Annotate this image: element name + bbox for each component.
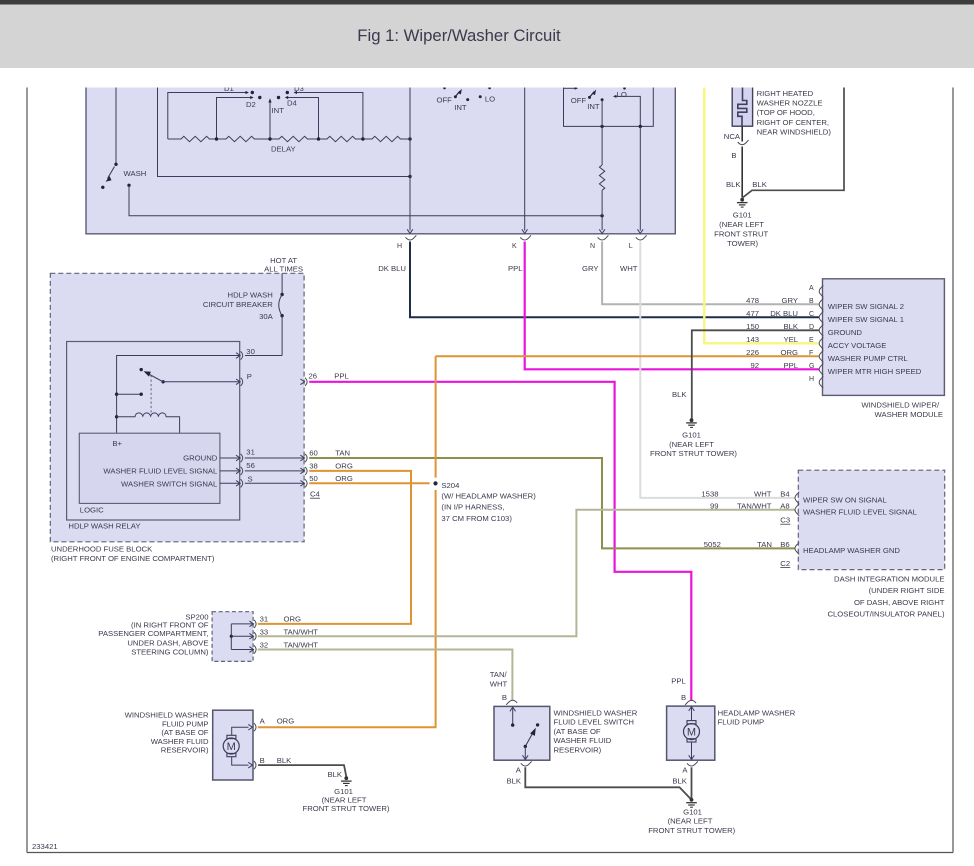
- svg-text:INT: INT: [454, 103, 467, 112]
- svg-text:OF DASH, ABOVE RIGHT: OF DASH, ABOVE RIGHT: [854, 598, 945, 607]
- svg-text:DK BLU: DK BLU: [770, 309, 798, 318]
- svg-text:UNDER DASH, ABOVE: UNDER DASH, ABOVE: [127, 639, 208, 648]
- rotary switch OFF/INT/LO (right, boxed): [564, 80, 654, 128]
- hdlp wash relay box: [67, 342, 240, 531]
- svg-text:226: 226: [746, 348, 759, 357]
- svg-text:B: B: [502, 693, 507, 702]
- svg-text:ORG: ORG: [780, 348, 798, 357]
- svg-text:DK BLU: DK BLU: [378, 264, 406, 273]
- svg-text:31: 31: [246, 447, 255, 456]
- svg-text:INT: INT: [587, 102, 600, 111]
- relay pin P wire: [163, 372, 252, 386]
- svg-text:B4: B4: [780, 489, 790, 498]
- headlamp pump pin B connector: [681, 693, 696, 705]
- svg-text:FLUID PUMP: FLUID PUMP: [162, 719, 209, 728]
- module pin D: [746, 322, 862, 337]
- svg-text:(RIGHT FRONT OF ENGINE COMPART: (RIGHT FRONT OF ENGINE COMPARTMENT): [51, 554, 215, 563]
- svg-text:A: A: [260, 716, 266, 725]
- wire 26 PPL relay P to headlamp washer pump: [309, 382, 691, 701]
- svg-text:30A: 30A: [259, 312, 274, 321]
- level switch pin A connector: [506, 761, 531, 785]
- wire BLK windshield pump to ground: [258, 765, 346, 779]
- svg-text:BLK: BLK: [752, 180, 767, 189]
- relay pin 30: [236, 347, 282, 360]
- wash signal wire to N: [127, 184, 604, 218]
- svg-text:31: 31: [260, 615, 269, 624]
- svg-text:GROUND: GROUND: [183, 453, 218, 462]
- wiper motor ground wire BLK (clipped top right): [742, 80, 844, 198]
- svg-text:143: 143: [746, 335, 759, 344]
- svg-text:(NEAR LEFT: (NEAR LEFT: [668, 817, 713, 826]
- svg-text:LO: LO: [485, 95, 495, 104]
- svg-text:RIGHT HEATED: RIGHT HEATED: [757, 89, 814, 98]
- svg-text:TAN/: TAN/: [490, 670, 508, 679]
- svg-text:WASHER NOZZLE: WASHER NOZZLE: [757, 99, 823, 108]
- svg-text:M: M: [227, 741, 236, 753]
- level switch pin B connector: [502, 693, 517, 705]
- svg-text:RESERVOIR): RESERVOIR): [554, 746, 602, 755]
- svg-text:STEERING COLUMN): STEERING COLUMN): [131, 647, 209, 656]
- headlamp pump pin A connector: [672, 761, 697, 785]
- windshield pump motor symbol: [223, 724, 252, 768]
- windshield pump pin B: [254, 756, 292, 769]
- svg-text:WINDSHIELD WIPER/: WINDSHIELD WIPER/: [861, 401, 940, 410]
- svg-text:A: A: [682, 765, 688, 774]
- svg-text:TAN/WHT: TAN/WHT: [284, 640, 319, 649]
- svg-text:FLUID PUMP: FLUID PUMP: [718, 718, 765, 727]
- fuse block connector pin 38: [300, 461, 352, 475]
- svg-text:WASHER MODULE: WASHER MODULE: [875, 410, 943, 419]
- svg-text:WIPER SW ON SIGNAL: WIPER SW ON SIGNAL: [803, 495, 887, 504]
- DIM pin B6 / C2: [704, 540, 901, 568]
- svg-text:BLK: BLK: [277, 756, 292, 765]
- module pin F: [746, 348, 908, 363]
- wire 99 TAN/WHT DIM A8 to SP200 pin 33: [258, 510, 796, 636]
- svg-text:FRONT STRUT TOWER): FRONT STRUT TOWER): [303, 804, 390, 813]
- svg-text:GRY: GRY: [582, 264, 599, 273]
- contact D3: [286, 84, 363, 139]
- wire 143 YEL accy voltage to module pin E: [704, 80, 819, 343]
- pin L exit arrow: [638, 126, 644, 233]
- svg-text:1538: 1538: [701, 489, 718, 498]
- pin K exit arrow: [522, 80, 528, 234]
- ground G101 (headlamp pump): [648, 798, 735, 835]
- svg-text:477: 477: [746, 309, 759, 318]
- svg-text:WHT: WHT: [620, 264, 638, 273]
- svg-text:(IN I/P HARNESS,: (IN I/P HARNESS,: [441, 503, 504, 512]
- fuse block connector C4 pin 26 (P): [300, 371, 349, 386]
- svg-text:L: L: [629, 243, 633, 250]
- windshield washer fluid pump M1: [125, 710, 253, 780]
- svg-text:WIPER MTR HIGH SPEED: WIPER MTR HIGH SPEED: [828, 367, 922, 376]
- svg-text:D1: D1: [224, 84, 234, 93]
- svg-text:BLK: BLK: [672, 390, 687, 399]
- svg-text:OFF: OFF: [571, 96, 587, 105]
- svg-text:A: A: [516, 765, 522, 774]
- level switch internals: [510, 706, 539, 759]
- svg-text:PASSENGER COMPARTMENT,: PASSENGER COMPARTMENT,: [98, 629, 208, 638]
- svg-text:ORG: ORG: [335, 474, 353, 483]
- wire 150 BLK module ground: [672, 330, 819, 419]
- DIM pin A8 / C3: [710, 501, 918, 524]
- wire TAN/WHT SP200 pin 32 to fluid level switch: [258, 650, 513, 701]
- wiper/washer switch assembly box: [86, 80, 675, 234]
- svg-text:26: 26: [309, 371, 318, 380]
- contact D2: [217, 96, 262, 139]
- WASH switch: [101, 80, 146, 189]
- ground G101 (windshield pump): [303, 776, 390, 813]
- svg-text:YEL: YEL: [783, 335, 798, 344]
- svg-text:HEADLAMP WASHER GND: HEADLAMP WASHER GND: [803, 546, 900, 555]
- svg-text:60: 60: [309, 449, 318, 458]
- fuse block connector pin 60: [300, 449, 350, 463]
- svg-text:WASHER FLUID: WASHER FLUID: [151, 737, 209, 746]
- svg-text:33: 33: [260, 627, 269, 636]
- svg-text:H: H: [809, 376, 814, 383]
- svg-text:WASH: WASH: [124, 169, 147, 178]
- svg-text:HDLP WASH: HDLP WASH: [228, 291, 273, 300]
- svg-text:38: 38: [309, 461, 318, 470]
- svg-text:B: B: [260, 756, 265, 765]
- svg-text:92: 92: [750, 361, 759, 370]
- windshield washer fluid level switch S1: [494, 706, 638, 760]
- svg-text:WIPER SW SIGNAL 1: WIPER SW SIGNAL 1: [828, 315, 904, 324]
- delay resistor network outer loop wire: [158, 80, 412, 178]
- svg-text:H: H: [397, 243, 402, 250]
- svg-text:WINDSHIELD WASHER: WINDSHIELD WASHER: [554, 709, 638, 718]
- wire 226 ORG washer pump ctrl feed: [436, 355, 819, 357]
- svg-text:HDLP WASH RELAY: HDLP WASH RELAY: [68, 522, 140, 531]
- svg-text:D3: D3: [294, 84, 304, 93]
- SP200 internal bus: [230, 624, 233, 650]
- svg-text:GRY: GRY: [781, 296, 798, 305]
- svg-text:ORG: ORG: [277, 716, 295, 725]
- connector pin L: [629, 235, 647, 250]
- headlamp pump motor symbol: [684, 706, 700, 759]
- svg-text:(NEAR LEFT: (NEAR LEFT: [719, 220, 764, 229]
- svg-text:RIGHT OF CENTER,: RIGHT OF CENTER,: [757, 118, 829, 127]
- INT wiper arm: [268, 98, 284, 139]
- svg-text:GROUND: GROUND: [828, 328, 863, 337]
- module pin C: [746, 309, 904, 324]
- svg-text:BLK: BLK: [327, 770, 342, 779]
- module pin G: [750, 361, 921, 376]
- wire BLK level switch to ground: [525, 767, 691, 799]
- splice SP200 (dashed): [98, 612, 253, 662]
- HDLP WASH circuit breaker 30A: [203, 273, 284, 355]
- svg-text:C3: C3: [780, 516, 790, 525]
- svg-text:C4: C4: [310, 490, 321, 499]
- underhood fuse block (dashed): [50, 273, 304, 563]
- wire 50 ORG relay S to splice S204: [309, 482, 429, 484]
- svg-text:99: 99: [710, 501, 719, 510]
- connector pin K: [512, 235, 531, 250]
- svg-text:DELAY: DELAY: [271, 145, 296, 154]
- wire ORG washer pump control trunk with splice S204: [258, 356, 536, 727]
- pin N exit arrow: [599, 229, 605, 233]
- svg-text:G: G: [809, 363, 814, 370]
- pin H exit arrow: [407, 80, 413, 234]
- wire PPL from pin K to module pin G: [508, 242, 819, 370]
- SP200 pin 31: [231, 615, 301, 628]
- right heated washer nozzle: [732, 80, 831, 136]
- svg-text:N: N: [590, 243, 595, 250]
- svg-text:B: B: [731, 151, 736, 160]
- headlamp washer fluid pump M2: [667, 706, 796, 760]
- svg-text:BLK: BLK: [506, 776, 521, 785]
- svg-text:C2: C2: [780, 559, 790, 568]
- svg-text:CLOSEOUT/INSULATOR PANEL): CLOSEOUT/INSULATOR PANEL): [827, 610, 944, 619]
- ground G101 (near left front strut tower, top right): [714, 198, 768, 248]
- svg-text:(NEAR LEFT: (NEAR LEFT: [669, 440, 714, 449]
- svg-text:5052: 5052: [704, 540, 721, 549]
- svg-text:32: 32: [260, 640, 269, 649]
- svg-text:G101: G101: [683, 807, 702, 816]
- svg-text:(AT BASE OF: (AT BASE OF: [554, 727, 601, 736]
- dash integration module (dashed): [798, 470, 945, 618]
- svg-text:BLK: BLK: [726, 180, 741, 189]
- module pin A: [809, 285, 823, 297]
- svg-text:B+: B+: [112, 439, 122, 448]
- svg-text:30: 30: [246, 347, 255, 356]
- svg-text:G101: G101: [733, 210, 752, 219]
- svg-text:B: B: [809, 298, 814, 305]
- DIM pin B4: [701, 489, 887, 504]
- svg-text:B: B: [681, 693, 686, 702]
- contact D4: [277, 96, 319, 139]
- svg-text:A: A: [809, 285, 814, 292]
- module pin E: [746, 335, 886, 350]
- svg-text:LO: LO: [617, 90, 627, 99]
- svg-text:E: E: [809, 337, 814, 344]
- svg-text:F: F: [809, 350, 813, 357]
- svg-text:WINDSHIELD WASHER: WINDSHIELD WASHER: [125, 710, 209, 719]
- svg-text:TAN: TAN: [335, 449, 350, 458]
- wire WHT from pin L to DIM pin B4: [620, 242, 796, 498]
- svg-text:UNDERHOOD FUSE BLOCK: UNDERHOOD FUSE BLOCK: [51, 545, 153, 554]
- ground G101 (module D): [650, 418, 737, 458]
- delay resistor chain: [168, 136, 412, 153]
- svg-text:CIRCUIT BREAKER: CIRCUIT BREAKER: [203, 300, 273, 309]
- svg-text:LOGIC: LOGIC: [80, 506, 104, 515]
- svg-text:ALL TIMES: ALL TIMES: [264, 264, 303, 273]
- svg-text:TOWER): TOWER): [727, 239, 758, 248]
- svg-text:WHT: WHT: [490, 680, 508, 689]
- svg-text:M: M: [687, 727, 696, 739]
- svg-text:ORG: ORG: [284, 615, 302, 624]
- nozzle wire NCA / pin B: [724, 126, 749, 197]
- windshield pump pin A: [254, 716, 294, 731]
- svg-text:56: 56: [246, 461, 255, 470]
- relay logic block: [79, 433, 220, 514]
- svg-text:S204: S204: [441, 481, 460, 490]
- svg-text:TAN/WHT: TAN/WHT: [284, 627, 319, 636]
- svg-text:ACCY VOLTAGE: ACCY VOLTAGE: [828, 341, 887, 350]
- intermittent resistor on N branch: [599, 100, 604, 230]
- relay coil: [117, 375, 180, 433]
- relay pin 56 washer fluid level wire: [220, 461, 304, 475]
- svg-text:150: 150: [746, 322, 759, 331]
- svg-text:(W/ HEADLAMP WASHER): (W/ HEADLAMP WASHER): [441, 492, 536, 501]
- svg-text:WASHER PUMP CTRL: WASHER PUMP CTRL: [828, 354, 909, 363]
- wire 477 DK BLU from pin H to module pin C: [378, 242, 819, 318]
- svg-text:FLUID LEVEL SWITCH: FLUID LEVEL SWITCH: [554, 718, 634, 727]
- svg-text:PPL: PPL: [671, 676, 686, 685]
- svg-text:WASHER SWITCH SIGNAL: WASHER SWITCH SIGNAL: [121, 479, 218, 488]
- svg-text:Fig 1: Wiper/Washer Circuit: Fig 1: Wiper/Washer Circuit: [357, 26, 561, 45]
- svg-text:WASHER FLUID LEVEL SIGNAL: WASHER FLUID LEVEL SIGNAL: [103, 466, 218, 475]
- svg-text:TAN/WHT: TAN/WHT: [737, 501, 772, 510]
- module pin B: [746, 296, 904, 311]
- svg-text:(TOP OF HOOD,: (TOP OF HOOD,: [757, 108, 815, 117]
- svg-text:HEADLAMP WASHER: HEADLAMP WASHER: [718, 709, 796, 718]
- windshield wiper/washer module U1: [823, 279, 945, 419]
- header bar: [0, 0, 974, 68]
- SP200 pin 32: [231, 640, 318, 653]
- svg-text:233421: 233421: [32, 842, 58, 851]
- svg-text:WIPER SW SIGNAL 2: WIPER SW SIGNAL 2: [828, 302, 904, 311]
- SP200 pin 33: [231, 627, 318, 640]
- svg-text:P: P: [247, 372, 252, 381]
- contact D1: [168, 84, 254, 139]
- svg-text:BLK: BLK: [672, 777, 687, 786]
- svg-text:50: 50: [309, 474, 318, 483]
- relay switch arm: [144, 371, 165, 383]
- fuse block connector pin 50 / C4: [300, 474, 352, 499]
- connector pin H: [397, 235, 416, 250]
- rotary switch contacts OFF/INT/LO (left): [437, 87, 496, 112]
- relay pin S washer switch wire: [220, 474, 304, 487]
- svg-text:INT: INT: [272, 106, 285, 115]
- relay internal wire from pin 30: [115, 356, 240, 434]
- svg-text:478: 478: [746, 296, 759, 305]
- svg-text:PPL: PPL: [508, 264, 523, 273]
- svg-text:D2: D2: [246, 100, 256, 109]
- svg-text:S: S: [248, 474, 253, 483]
- svg-text:BLK: BLK: [783, 322, 798, 331]
- module pin H: [809, 376, 823, 388]
- svg-text:PPL: PPL: [783, 361, 798, 370]
- wire BLK headlamp pump to ground: [691, 767, 693, 798]
- svg-text:NEAR WINDSHIELD): NEAR WINDSHIELD): [757, 127, 832, 136]
- svg-text:ORG: ORG: [335, 461, 353, 470]
- svg-text:TAN: TAN: [757, 540, 772, 549]
- svg-text:WHT: WHT: [754, 489, 772, 498]
- wire 60/5052 TAN relay 31 to DIM B6: [309, 458, 795, 548]
- svg-text:K: K: [512, 243, 517, 250]
- svg-text:D: D: [809, 324, 814, 331]
- wire 38 ORG relay 56 to SP200 pin 31: [258, 471, 411, 624]
- svg-text:D4: D4: [287, 99, 298, 108]
- svg-text:FRONT STRUT: FRONT STRUT: [714, 230, 768, 239]
- feed HOT AT ALL TIMES: [264, 256, 303, 274]
- svg-text:FRONT STRUT TOWER): FRONT STRUT TOWER): [648, 826, 735, 835]
- svg-text:DASH INTEGRATION MODULE: DASH INTEGRATION MODULE: [834, 575, 944, 584]
- wire 478 GRY from pin N to module pin B: [582, 242, 819, 305]
- svg-text:WASHER FLUID: WASHER FLUID: [554, 736, 612, 745]
- svg-text:FRONT STRUT TOWER): FRONT STRUT TOWER): [650, 449, 737, 458]
- svg-text:(AT BASE OF: (AT BASE OF: [161, 728, 208, 737]
- svg-text:WASHER FLUID LEVEL SIGNAL: WASHER FLUID LEVEL SIGNAL: [803, 507, 918, 516]
- svg-text:B6: B6: [780, 540, 789, 549]
- svg-text:A8: A8: [780, 501, 789, 510]
- svg-text:RESERVOIR): RESERVOIR): [161, 746, 209, 755]
- svg-text:NCA: NCA: [724, 132, 741, 141]
- svg-text:G101: G101: [682, 430, 701, 439]
- relay switch contacts: [117, 368, 143, 396]
- svg-text:37 CM FROM C103): 37 CM FROM C103): [441, 514, 512, 523]
- relay pin 31 ground wire: [220, 447, 304, 462]
- svg-text:(UNDER RIGHT SIDE: (UNDER RIGHT SIDE: [869, 586, 945, 595]
- svg-text:C: C: [809, 311, 814, 318]
- svg-text:PPL: PPL: [334, 371, 349, 380]
- connector pin N: [590, 235, 608, 250]
- svg-text:OFF: OFF: [437, 96, 453, 105]
